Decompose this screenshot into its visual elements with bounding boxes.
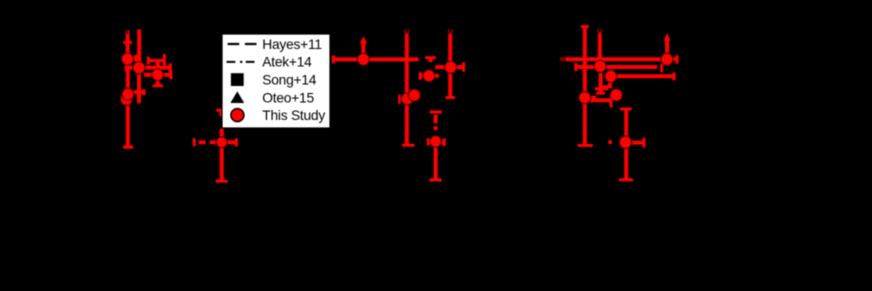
wire: x error bar P3e left dash	[608, 140, 612, 144]
wire: x error bar P3d-right (hidden point) with down cap	[586, 96, 611, 108]
data point B circle	[133, 62, 145, 74]
upper limit arrow head P3c	[664, 33, 669, 39]
wire: y error bar F top (dashed) with cap	[216, 110, 227, 142]
wire: x error bar P2b left cap with dash	[420, 72, 439, 80]
wire: y error bar P3b bottom with cap	[603, 76, 613, 87]
svg-text:Oteo+15: Oteo+15	[262, 90, 314, 105]
data point C circle	[152, 69, 164, 81]
wire: y error bar P2e top (dashed) with cap	[430, 112, 442, 130]
wire: upper bar near C (y=60.6) with tall right cap	[148, 54, 164, 68]
wire: y error bar P3d (x=584.8)	[578, 27, 593, 146]
wire: x error bar D with right cap	[133, 89, 144, 95]
wire: x error bar B with caps	[126, 63, 170, 72]
legend Atek+14 dash-dot line	[227, 61, 255, 63]
wire: y error bar P2b top with cap	[425, 58, 436, 63]
wire: x error bar P2d with right cap	[435, 62, 463, 71]
data point P3f circle	[610, 89, 622, 101]
wire: vertical error bar B (x=139.3)	[137, 30, 141, 104]
wire: x error bar P3d right segment	[591, 96, 597, 100]
legend This Study circle marker	[231, 109, 244, 122]
data point P2c1 circle	[408, 89, 420, 101]
data point A circle	[122, 53, 134, 65]
wire: x error bar P3a (H2) with left cap	[576, 63, 662, 72]
wire: x error bar F left (dashed) with cap	[194, 138, 217, 146]
wire: x error bar of point A right cap	[133, 55, 136, 62]
wire: y error bar P3e with caps	[619, 109, 633, 180]
wire: vertical error bar C	[153, 61, 163, 86]
data point D2 circle (lower overlapped)	[121, 93, 133, 105]
wire: upper limit arrow stem P3c	[664, 40, 669, 54]
data point P2d circle	[445, 61, 457, 73]
wire: x error bar P2c2 left cap (dashed)	[399, 95, 402, 104]
upper limit arrow head P2a	[360, 36, 367, 42]
wire: x error bar P2a with caps	[333, 55, 418, 63]
data point P3c circle	[661, 53, 673, 65]
svg-text:Hayes+11: Hayes+11	[262, 37, 322, 52]
wire: x error bar P2e caps	[428, 138, 444, 146]
svg-text:Atek+14: Atek+14	[262, 55, 312, 70]
wire: vertical error bar A (x=127.8, top stubs)	[123, 30, 133, 148]
legend labels	[262, 37, 325, 123]
data point P3d circle	[579, 92, 591, 104]
data point P2b circle	[423, 70, 435, 82]
data point P2a circle	[357, 53, 369, 65]
wire: y error bar P2d (x=449.9)	[446, 29, 455, 97]
data point P2c2 circle	[401, 93, 413, 105]
svg-text:This Study: This Study	[262, 108, 325, 123]
wire: x error bar P3e right with cap	[632, 138, 644, 148]
data point F circle	[216, 137, 227, 148]
wire: y error bar P2e bottom with cap	[430, 141, 442, 180]
wire: x error bar F right with cap	[227, 138, 237, 146]
wire: big vertical error bar through P2c2 (x=406.8)	[402, 29, 414, 145]
wire: x error bar P3c (long H1) with caps	[565, 55, 677, 63]
point F (221.7,142.3) with dashed left/top limits	[194, 110, 236, 181]
data point P3b circle	[605, 70, 617, 82]
wire: faint dash left of H1	[560, 57, 565, 61]
legend Hayes+11 dashed line	[228, 43, 257, 45]
svg-text:Song+14: Song+14	[262, 73, 316, 88]
data point P3e circle	[619, 136, 631, 148]
wire: x error bar P3b (H3) with right cap	[605, 72, 674, 80]
data point P2e circle	[430, 136, 442, 148]
wire: x error bar C right cap	[144, 70, 171, 79]
data point D circle	[122, 88, 134, 100]
data point P3a circle	[594, 60, 606, 72]
legend Song+14 square marker	[231, 73, 244, 86]
legend box	[222, 34, 330, 128]
wire: y error bar F bottom with cap	[216, 142, 228, 181]
wire: upper limit arrow stem P2a	[361, 43, 366, 54]
legend Oteo+15 triangle marker	[230, 91, 244, 103]
wire: y error bar P3a (x=599.8) with double bottom caps	[595, 29, 609, 94]
